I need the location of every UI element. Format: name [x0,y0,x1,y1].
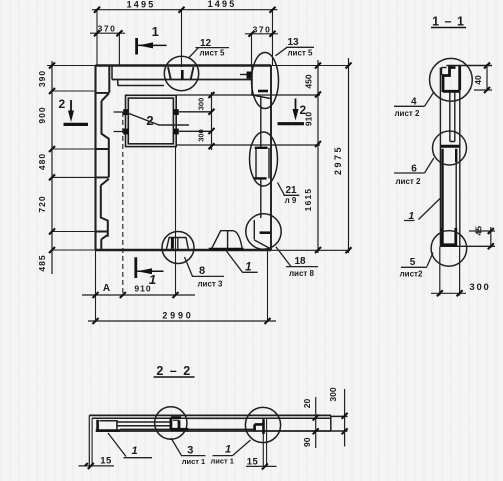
circle B [245,407,280,442]
panel left wall web line [94,66,96,251]
anchor line right bottom [179,130,212,132]
callout oval 21 [250,132,278,186]
dim 40 [486,64,488,91]
left dim tick lines [52,91,96,232]
detail A bold step [171,417,188,429]
leader label 21 [278,183,300,196]
section marker 2 right [278,99,305,124]
extension line x175.5 [175,147,177,295]
ext pair circle B [263,418,266,468]
top-right corner inner edge [252,66,271,99]
joint slot cap bottom [254,177,267,179]
panel left wall rib profile [101,66,110,251]
dimension slash ticks [49,7,352,324]
dim ext x272.5 [272,10,274,66]
detail 18 weld dash [260,231,271,234]
callout circle 18 [246,214,281,249]
dim 15 left [79,465,115,467]
right ext lines [331,416,348,431]
section 1-1 groove lines [450,92,455,142]
panel top edge extension left [47,65,96,67]
detail 12 rib trapezoid [168,67,194,80]
right dim line A [317,60,319,253]
rib section item 1 base [209,248,244,251]
right wall inner line lower [260,178,262,218]
rib section item 1 [211,231,242,249]
dim ext x97 [96,10,98,66]
joint slot cap top [255,147,268,149]
section 1-1 dims [431,64,495,296]
pocket outline [100,421,117,430]
plan texts [37,0,343,321]
callout circle 5 [431,231,467,267]
detail 12 center tick [181,70,184,80]
section 2-2 texts [100,364,338,467]
dim line 20-90 [315,397,317,448]
left rib lines [117,422,171,429]
dim ext x119.4 [118,33,120,65]
section 1-1 left edge [439,68,441,247]
top-left corner step [112,66,118,86]
leader label 18 [276,247,318,267]
panel bottom edge [96,249,272,252]
detail 13 weld dash [258,90,268,93]
opening square inner [128,98,173,144]
middle inner lines [188,418,255,429]
bar bottom edge [96,430,331,432]
section marker 2 left [64,100,89,124]
leader label 2 opening [127,113,190,126]
section 1-1 bottom edge [440,245,496,247]
right dim line B [348,58,350,253]
panel bottom edge extension right [271,249,350,251]
leader label 12 [189,48,229,58]
detail B bold step [255,419,264,434]
section 2-2 dims [79,389,345,466]
detail 13 anchor dash [240,74,247,76]
left wall rib cap lines [96,93,110,232]
anchor tick right top [173,109,178,115]
top dim line 1495+1495 [92,9,278,11]
dim 300 bottom [440,247,460,296]
leader label 8 [185,257,225,276]
detail A pocket top [173,419,179,421]
anchor dashes left [114,112,124,132]
bar left end inner [91,418,93,466]
extension line x122.8 dashed [122,112,124,295]
extension y95 right [176,94,320,96]
section marker 1 bottom [136,257,164,278]
circle A [155,407,187,439]
bottom dim line A-910 [82,294,195,296]
panel top edge extension right [271,65,350,67]
bar top edge [89,414,331,416]
dim 370 left line [90,32,125,34]
300 dim line vertical [211,92,213,150]
callout circle 12 [164,56,198,90]
section 1-1 inner pair lower [455,162,457,228]
bottom dim line 2990 [88,320,276,322]
section 1-1 top edge [442,66,493,76]
right wall joint slot [256,148,269,179]
section 1-1 circles [430,58,473,266]
callout oval 13 [252,53,279,109]
dim 15 right [246,465,277,467]
left dim line vertical [51,61,53,274]
leader label 13 [276,47,315,56]
dim line 300 [344,389,346,447]
dim ext x251.5 [251,34,253,66]
callout circle 4 [430,58,473,101]
dim 45 [490,227,492,248]
bar right end [330,415,332,431]
detail 6 bold bar [441,146,459,228]
scan noise overlay [0,0,1,1]
dim ext x181.5 [181,10,183,67]
leader label 1 rib [226,251,258,273]
anchor tick left top [123,109,128,115]
detail 4 bold step [443,66,460,92]
right wall inner line upper [260,98,262,148]
extension x267.5 down [267,250,269,321]
detail 13 anchor square [247,72,252,79]
panel top edge [96,64,272,66]
detail 8 bold tick [171,238,174,249]
anchor tick left bottom [123,129,128,135]
anchor line right top [179,111,212,113]
dim 370 right line [245,33,278,35]
pocket bold [96,420,120,432]
leaders section 1-1 [394,93,440,268]
detail 5 bold U [442,228,456,245]
section 1-1 right edge [459,91,461,246]
callout circle 6 [433,131,467,165]
panel right wall outer edge [270,66,272,251]
extension x95.5 down [95,250,97,321]
bar left end edge [88,415,90,466]
anchor tick right bottom [173,129,178,135]
bottom-right corner inner edge [254,220,271,249]
extension y145 right [176,144,320,146]
detail 8 rib section [167,238,189,249]
top wall inner edge [112,79,252,81]
section marker 1 top [137,38,167,55]
callout circle 8 [162,232,194,264]
opening square outer [126,95,177,146]
section 1-1 texts [394,15,490,294]
top wall ledge line [118,85,164,87]
panel bottom edge extension left [52,249,96,251]
leaders section 2-2 [108,433,251,458]
bar inner top line [92,417,331,419]
